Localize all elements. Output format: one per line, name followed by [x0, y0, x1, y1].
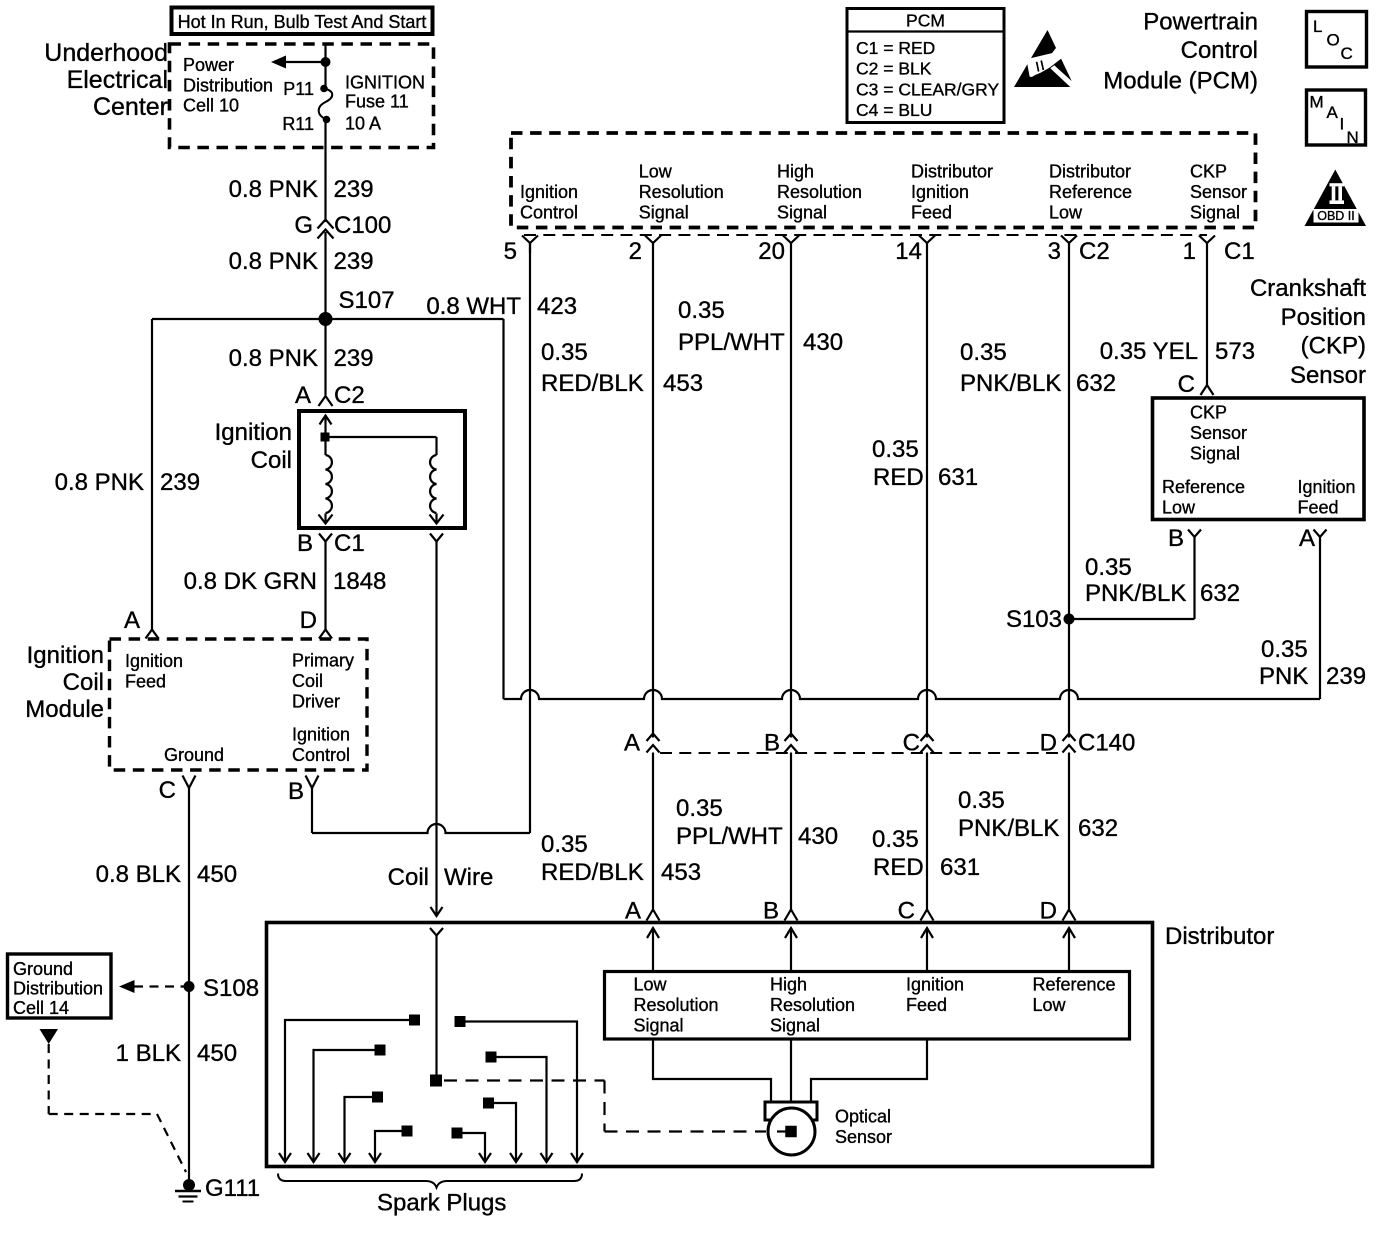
- svg-text:C: C: [1178, 371, 1195, 398]
- svg-text:Sensor: Sensor: [1190, 182, 1247, 202]
- svg-text:0.8 PNK: 0.8 PNK: [55, 469, 144, 496]
- svg-text:Distributor: Distributor: [1165, 923, 1274, 950]
- svg-text:Feed: Feed: [125, 672, 166, 692]
- svg-text:L: L: [1313, 17, 1322, 36]
- svg-text:Signal: Signal: [1190, 444, 1240, 464]
- ignition coil internals: link to secondary: [326, 436, 437, 438]
- svg-text:Ignition: Ignition: [125, 651, 183, 671]
- svg-text:450: 450: [197, 861, 237, 888]
- spark plug wire 4: [402, 1126, 413, 1137]
- svg-text:Coil: Coil: [388, 864, 429, 891]
- svg-text:Crankshaft: Crankshaft: [1250, 275, 1366, 302]
- svg-text:14: 14: [895, 238, 922, 265]
- wire: fuse output down to C100: [324, 120, 326, 223]
- wire: coil B to module D, 0.8 DK GRN 1848: [324, 542, 326, 630]
- module internal labels: [125, 651, 354, 766]
- svg-text:Control: Control: [292, 745, 350, 765]
- wire: high res signal to optical sensor: [790, 1039, 792, 1102]
- ignition coil box: [299, 411, 465, 528]
- svg-text:0.35: 0.35: [678, 297, 725, 324]
- svg-text:631: 631: [938, 464, 978, 491]
- svg-text:0.35: 0.35: [541, 339, 588, 366]
- underhood electrical center dashed box: [170, 44, 434, 148]
- coil wire entry terminal: [430, 928, 443, 936]
- svg-text:Resolution: Resolution: [777, 182, 862, 202]
- svg-text:0.35: 0.35: [960, 339, 1007, 366]
- svg-text:C1: C1: [1224, 238, 1255, 265]
- svg-text:S103: S103: [1006, 606, 1062, 633]
- svg-text:453: 453: [661, 859, 701, 886]
- coil secondary tower terminal: [430, 534, 443, 542]
- svg-text:RED/BLK: RED/BLK: [541, 859, 644, 886]
- svg-text:Low: Low: [634, 975, 668, 995]
- svg-text:Cell 10: Cell 10: [183, 96, 239, 116]
- svg-text:453: 453: [663, 370, 703, 397]
- splice S108 with reference arrow: [119, 980, 135, 993]
- svg-text:C: C: [898, 898, 915, 925]
- svg-text:Ignition: Ignition: [520, 182, 578, 202]
- svg-text:Low: Low: [1033, 995, 1067, 1015]
- svg-text:1: 1: [1183, 238, 1196, 265]
- fuse value label: [345, 73, 425, 134]
- svg-text:M: M: [1310, 93, 1324, 112]
- svg-text:10 A: 10 A: [345, 114, 381, 134]
- svg-text:0.8 BLK: 0.8 BLK: [96, 861, 181, 888]
- wire: C140 D to distributor, 0.35 PNK/BLK 632: [1068, 753, 1070, 910]
- wire: S103 branch to CKP sensor B, 0.35 PNK/BLK 632: [1069, 618, 1195, 620]
- svg-text:Distributor: Distributor: [911, 162, 993, 182]
- svg-text:C: C: [159, 777, 176, 804]
- svg-text:A: A: [1299, 525, 1315, 552]
- svg-text:Sensor: Sensor: [1290, 362, 1366, 389]
- svg-text:430: 430: [798, 823, 838, 850]
- wire: C140 B to distributor, 0.35 PPL/WHT 430: [790, 753, 792, 910]
- svg-text:Ignition: Ignition: [911, 182, 969, 202]
- svg-text:C100: C100: [334, 212, 391, 239]
- svg-text:Coil: Coil: [63, 669, 104, 696]
- svg-text:Resolution: Resolution: [639, 182, 724, 202]
- svg-text:0.35: 0.35: [676, 795, 723, 822]
- svg-text:Spark Plugs: Spark Plugs: [377, 1190, 506, 1217]
- wire: PCM pin 14 to C140 C, 0.35 RED 631: [926, 243, 928, 738]
- wire: S107 left branch down to module pin A, 0.8 PNK 239: [151, 319, 153, 630]
- svg-text:RED: RED: [873, 854, 924, 881]
- svg-text:Powertrain: Powertrain: [1143, 9, 1258, 36]
- optical sensor: [765, 1102, 817, 1120]
- ignition coil internals: primary winding: [324, 424, 326, 455]
- svg-text:O: O: [1327, 31, 1340, 50]
- CKP sensor internal labels: [1162, 403, 1356, 518]
- svg-text:632: 632: [1078, 815, 1118, 842]
- svg-text:Ground: Ground: [164, 745, 224, 765]
- OBD II symbol: [1305, 170, 1367, 227]
- svg-text:(CKP): (CKP): [1301, 333, 1366, 360]
- svg-text:N: N: [1347, 128, 1359, 147]
- svg-text:Ground: Ground: [13, 959, 73, 979]
- svg-text:C4 = BLU: C4 = BLU: [856, 100, 932, 120]
- ESD sensitive device symbol: [1014, 30, 1075, 87]
- spark plug wire 7: [483, 1098, 494, 1109]
- svg-text:0.8 PNK: 0.8 PNK: [229, 345, 318, 372]
- wire: PCM pin 1 to CKP sensor C, 0.35 YEL 573: [1206, 243, 1208, 385]
- svg-text:Fuse 11: Fuse 11: [345, 91, 409, 111]
- svg-text:0.35: 0.35: [541, 831, 588, 858]
- svg-text:IGNITION: IGNITION: [345, 73, 425, 93]
- svg-text:S108: S108: [203, 975, 259, 1002]
- svg-text:P11: P11: [283, 79, 314, 99]
- svg-text:High: High: [777, 162, 814, 182]
- svg-text:Reference: Reference: [1162, 477, 1245, 497]
- svg-text:2: 2: [629, 238, 642, 265]
- svg-text:PPL/WHT: PPL/WHT: [676, 823, 783, 850]
- svg-text:Signal: Signal: [777, 203, 827, 223]
- wire: battery feed into fuse: [324, 44, 326, 89]
- svg-text:Optical: Optical: [835, 1107, 891, 1127]
- svg-text:Ignition: Ignition: [292, 725, 350, 745]
- svg-text:R11: R11: [282, 114, 314, 134]
- svg-text:Feed: Feed: [1298, 498, 1339, 518]
- svg-text:239: 239: [334, 248, 374, 275]
- svg-text:PCM: PCM: [906, 10, 945, 30]
- wire: C100 to S107, 0.8 PNK 239: [324, 232, 326, 319]
- svg-text:Position: Position: [1281, 304, 1366, 331]
- svg-text:Ignition: Ignition: [27, 642, 104, 669]
- Crankshaft Position (CKP) Sensor label: [1250, 275, 1366, 389]
- wire: arrow to other circuits (left): [280, 61, 326, 63]
- svg-text:CKP: CKP: [1190, 162, 1227, 182]
- svg-text:Control: Control: [520, 203, 578, 223]
- spark plug wire 3: [372, 1092, 383, 1103]
- svg-text:Signal: Signal: [770, 1016, 820, 1036]
- svg-text:0.8 WHT: 0.8 WHT: [426, 293, 521, 320]
- svg-text:Resolution: Resolution: [634, 995, 719, 1015]
- svg-text:0.8 PNK: 0.8 PNK: [229, 248, 318, 275]
- wire: C140 A to distributor, 0.35 RED/BLK 453: [652, 753, 654, 910]
- svg-text:0.35: 0.35: [1261, 636, 1308, 663]
- svg-text:Distribution: Distribution: [183, 75, 273, 95]
- spark plug wire 1: [409, 1015, 420, 1026]
- svg-text:450: 450: [197, 1040, 237, 1067]
- svg-text:1 BLK: 1 BLK: [116, 1040, 181, 1067]
- PCM pin function labels: [520, 162, 1247, 223]
- svg-text:B: B: [763, 898, 779, 925]
- wire: PCM pin 2 to C140 A, 0.35 RED/BLK 453: [652, 243, 654, 738]
- svg-text:Signal: Signal: [634, 1016, 684, 1036]
- svg-text:0.35: 0.35: [872, 826, 919, 853]
- svg-text:G111: G111: [205, 1175, 260, 1202]
- wire: ignition feed S107 to CKP sensor A, 0.35 PNK 239: [502, 319, 504, 699]
- svg-text:3: 3: [1048, 238, 1061, 265]
- svg-text:Low: Low: [639, 162, 673, 182]
- svg-text:Coil: Coil: [292, 671, 323, 691]
- svg-text:C2: C2: [334, 382, 365, 409]
- svg-text:Feed: Feed: [911, 203, 952, 223]
- wire: ignition feed to optical sensor: [811, 1039, 927, 1102]
- svg-text:Low: Low: [1049, 203, 1083, 223]
- ignition coil module label: [25, 642, 104, 723]
- svg-text:Distribution: Distribution: [13, 979, 103, 999]
- Power Distribution Cell 10 label: [183, 55, 273, 116]
- svg-text:20: 20: [758, 238, 785, 265]
- svg-text:Wire: Wire: [444, 864, 493, 891]
- fuse: IGNITION Fuse 11 10A: [319, 89, 333, 120]
- svg-text:Reference: Reference: [1049, 182, 1132, 202]
- svg-text:I: I: [1340, 115, 1345, 134]
- MAIN reference box: [1307, 90, 1366, 145]
- svg-text:OBD II: OBD II: [1317, 209, 1355, 223]
- svg-text:Control: Control: [1181, 37, 1258, 64]
- svg-text:Distributor: Distributor: [1049, 162, 1131, 182]
- svg-text:G: G: [294, 212, 313, 239]
- svg-text:A: A: [295, 382, 311, 409]
- svg-text:Sensor: Sensor: [835, 1127, 892, 1147]
- svg-text:Signal: Signal: [1190, 203, 1240, 223]
- Underhood Electrical Center label: [44, 39, 168, 121]
- svg-text:RED/BLK: RED/BLK: [541, 370, 644, 397]
- distributor terminal function box: [605, 972, 1130, 1040]
- svg-text:Ignition: Ignition: [1298, 477, 1356, 497]
- svg-text:Low: Low: [1162, 498, 1196, 518]
- PCM dashed outline box: [511, 133, 1256, 228]
- spark plug wire 6: [486, 1052, 497, 1063]
- svg-text:C140: C140: [1078, 730, 1135, 757]
- svg-text:PPL/WHT: PPL/WHT: [678, 329, 785, 356]
- svg-text:A: A: [625, 898, 641, 925]
- distributor box: [267, 923, 1153, 1167]
- svg-text:Driver: Driver: [292, 692, 340, 712]
- ground distribution cell 14 reference box: [8, 954, 112, 1018]
- spark plug wire 8: [452, 1128, 463, 1139]
- svg-text:PNK: PNK: [1259, 663, 1308, 690]
- svg-text:239: 239: [334, 176, 374, 203]
- svg-text:C1 = RED: C1 = RED: [856, 38, 935, 58]
- svg-text:PNK/BLK: PNK/BLK: [960, 370, 1061, 397]
- dashed link: rotor to optical sensor: [444, 1079, 605, 1081]
- C140 connector face dashed line: [660, 752, 1062, 754]
- svg-text:Underhood: Underhood: [44, 39, 168, 67]
- svg-text:Module (PCM): Module (PCM): [1103, 68, 1258, 95]
- svg-text:239: 239: [334, 345, 374, 372]
- wire: C140 C to distributor, 0.35 RED 631: [926, 753, 928, 910]
- svg-text:Ignition: Ignition: [215, 419, 292, 446]
- svg-text:Ignition: Ignition: [906, 975, 964, 995]
- svg-text:B: B: [297, 530, 313, 557]
- svg-text:632: 632: [1076, 370, 1116, 397]
- svg-text:Center: Center: [93, 93, 168, 121]
- svg-text:Electrical: Electrical: [67, 66, 168, 94]
- svg-text:D: D: [1040, 898, 1057, 925]
- svg-text:0.8 PNK: 0.8 PNK: [229, 176, 318, 203]
- svg-text:A: A: [124, 607, 140, 634]
- node: feed junction in UEC: [321, 57, 331, 67]
- svg-text:Resolution: Resolution: [770, 995, 855, 1015]
- svg-text:B: B: [1168, 525, 1184, 552]
- svg-text:D: D: [300, 607, 317, 634]
- wire: PCM pin 3 to C140 D, 0.35 PNK/BLK 632: [1068, 243, 1070, 738]
- spark plug wire 2: [375, 1045, 386, 1056]
- svg-text:Module: Module: [25, 696, 104, 723]
- CKP sensor box: [1153, 398, 1365, 520]
- distributor internal signal arrows: [652, 928, 654, 970]
- svg-text:C3 = CLEAR/GRY: C3 = CLEAR/GRY: [856, 79, 999, 99]
- svg-text:0.35 YEL: 0.35 YEL: [1100, 338, 1198, 365]
- svg-text:423: 423: [537, 293, 577, 320]
- spark plugs brace: [278, 1174, 582, 1188]
- LOC reference box: [1307, 12, 1367, 68]
- svg-text:B: B: [288, 778, 304, 805]
- svg-text:239: 239: [1326, 663, 1366, 690]
- svg-text:Primary: Primary: [292, 651, 354, 671]
- svg-text:Cell 14: Cell 14: [13, 998, 69, 1018]
- svg-text:631: 631: [940, 854, 980, 881]
- PCM connector color legend box: [847, 9, 1004, 123]
- svg-text:0.35: 0.35: [872, 436, 919, 463]
- distributor cap center terminal: [430, 1075, 442, 1087]
- Powertrain Control Module (PCM) label: [1103, 9, 1258, 95]
- svg-text:High: High: [770, 975, 807, 995]
- svg-text:Power: Power: [183, 55, 234, 75]
- spark plug wire 5: [455, 1016, 466, 1027]
- svg-text:239: 239: [160, 469, 200, 496]
- svg-text:632: 632: [1200, 580, 1240, 607]
- PCM connector face dashed line: [524, 234, 1207, 236]
- svg-text:C1: C1: [334, 530, 365, 557]
- wire: module B to PCM pin 5, 0.8 WHT 423: [311, 788, 313, 833]
- ignition coil internals: secondary winding: [430, 455, 436, 513]
- ground cell dashed branch with arrow: [40, 1029, 59, 1044]
- svg-text:430: 430: [803, 329, 843, 356]
- wire: S107 horizontal run: [152, 318, 504, 320]
- svg-text:Coil: Coil: [251, 447, 292, 474]
- wire: coil tower to distributor cap (coil wire): [435, 542, 437, 917]
- svg-text:S107: S107: [339, 287, 395, 314]
- wire: low res signal to optical sensor: [653, 1039, 771, 1102]
- svg-text:Hot In Run, Bulb Test And Star: Hot In Run, Bulb Test And Start: [178, 12, 427, 32]
- svg-text:Sensor: Sensor: [1190, 423, 1247, 443]
- svg-text:RED: RED: [873, 464, 924, 491]
- svg-text:0.8 DK GRN: 0.8 DK GRN: [184, 568, 317, 595]
- wire: module C ground down to G111, 0.8 BLK 450: [188, 788, 190, 1185]
- wire: PCM pin 20 to C140 B, 0.35 PPL/WHT 430: [790, 243, 792, 738]
- svg-text:C2: C2: [1079, 238, 1110, 265]
- svg-text:1848: 1848: [333, 568, 386, 595]
- svg-text:Feed: Feed: [906, 995, 947, 1015]
- wire: S107 down to ignition coil pin A, 0.8 PNK 239: [324, 319, 326, 391]
- svg-text:5: 5: [504, 238, 517, 265]
- ground G111: [183, 1179, 195, 1191]
- svg-text:Signal: Signal: [639, 203, 689, 223]
- svg-text:0.35: 0.35: [958, 787, 1005, 814]
- svg-text:PNK/BLK: PNK/BLK: [958, 815, 1059, 842]
- svg-text:C: C: [1341, 44, 1353, 63]
- svg-text:A: A: [1327, 103, 1339, 122]
- svg-text:A: A: [624, 730, 640, 757]
- svg-text:C2 = BLK: C2 = BLK: [856, 59, 932, 79]
- svg-text:CKP: CKP: [1190, 403, 1227, 423]
- fuse block header box "Hot In Run, Bulb Test And Start": [172, 8, 433, 35]
- svg-text:573: 573: [1215, 338, 1255, 365]
- ignition coil module dashed box: [110, 639, 368, 770]
- svg-text:PNK/BLK: PNK/BLK: [1085, 580, 1186, 607]
- svg-text:Reference: Reference: [1033, 975, 1116, 995]
- svg-text:0.35: 0.35: [1085, 554, 1132, 581]
